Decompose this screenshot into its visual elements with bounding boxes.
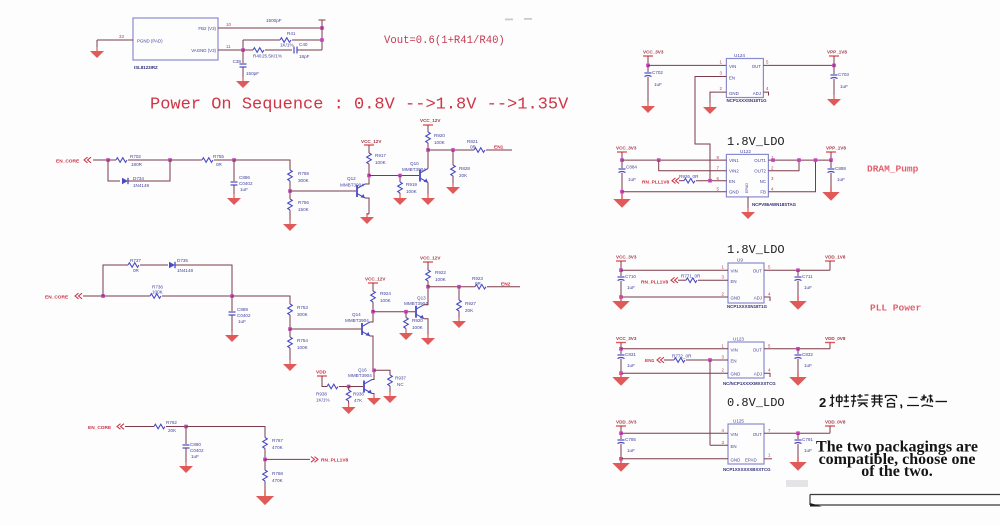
regulator U40 body (133, 18, 218, 60)
svg-text:C710: C710 (625, 274, 636, 279)
wire U124 GND (710, 92, 726, 104)
svg-text:NCP1XXXSN18T1G: NCP1XXXSN18T1G (727, 98, 768, 103)
wire R755 to C886 node (214, 159, 234, 161)
wire C38 bottom (242, 67, 244, 77)
wire R919 bottom (399, 193, 401, 195)
resistor R759 (288, 170, 293, 181)
net connector EN_CORE (75, 293, 82, 299)
svg-text:MMBT3904: MMBT3904 (345, 318, 369, 323)
wire diode branch right (128, 160, 170, 181)
power VCC_3V3 (643, 56, 653, 60)
wire emitter jog (367, 213, 369, 215)
wire C886 bottom (233, 185, 235, 194)
wire C889 bottom (231, 315, 233, 331)
ground (612, 458, 630, 472)
svg-text:VCC_3V3: VCC_3V3 (616, 336, 637, 341)
wire C886 top (233, 160, 235, 181)
svg-text:EN: EN (729, 179, 735, 184)
ground (367, 394, 381, 405)
ground (399, 329, 413, 340)
wire to R924 (372, 302, 374, 312)
svg-text:0R: 0R (470, 145, 477, 150)
resistor R768 (263, 470, 268, 481)
svg-text:R755: R755 (213, 154, 224, 159)
svg-text:C702: C702 (652, 70, 663, 75)
svg-text:VPP_1V8: VPP_1V8 (826, 146, 846, 151)
svg-text:100K: 100K (152, 290, 164, 295)
junction R936 node (347, 385, 351, 389)
svg-text:EN2: EN2 (501, 282, 511, 288)
power VPP_1V8 (829, 56, 839, 60)
svg-text:R756: R756 (298, 200, 309, 205)
wire Q13 collector (424, 287, 428, 305)
capacitor C831 (618, 355, 625, 359)
wire R41 to VAGND (242, 40, 244, 50)
capacitor C886 (231, 182, 238, 185)
ground (393, 194, 407, 205)
junction C711 node (796, 268, 800, 272)
wire upper branch right (175, 265, 232, 296)
resistor R919 (398, 182, 403, 193)
svg-text:RN_PLL1V8: RN_PLL1V8 (641, 280, 669, 286)
svg-text:VIN: VIN (729, 64, 736, 69)
wire OUT2 join (768, 160, 799, 171)
power VDD_1V8 (825, 261, 835, 265)
svg-text:1N4148: 1N4148 (177, 268, 194, 273)
wire VIN (621, 432, 728, 434)
ground (612, 372, 630, 386)
resistor R917 (367, 153, 372, 164)
svg-text:OUT: OUT (752, 64, 762, 69)
wire Q12 collector (365, 176, 369, 185)
resistor R920 (426, 132, 431, 143)
wire C832 bottom (797, 359, 799, 373)
svg-text:C884: C884 (626, 165, 637, 170)
svg-text:R702: R702 (130, 154, 141, 159)
svg-text:Q16: Q16 (358, 368, 367, 373)
svg-text:PLL Power: PLL Power (870, 303, 922, 314)
wire VDD down (829, 426, 831, 433)
junction VIN node (619, 268, 623, 272)
svg-text:470K: 470K (272, 478, 284, 483)
svg-text:MMBT3904: MMBT3904 (404, 301, 428, 306)
junction C890 node (184, 425, 188, 429)
svg-text:VDD_0V8: VDD_0V8 (825, 336, 846, 341)
svg-text:1uF: 1uF (804, 285, 812, 290)
wire ADJ stub (764, 373, 770, 377)
junction Q16 collector node (372, 369, 376, 373)
svg-text:47K: 47K (354, 398, 363, 403)
wire R737 to D735 (140, 264, 168, 266)
junction FB node (814, 158, 818, 162)
wire C703 top (833, 65, 835, 74)
svg-text:18pF: 18pF (299, 54, 310, 59)
svg-text:C38: C38 (233, 59, 242, 64)
wire to RN_PLL1V8 (265, 458, 310, 460)
wire R754 bottom (289, 348, 291, 360)
svg-text:1uF: 1uF (654, 82, 662, 87)
junction R828 node (451, 148, 455, 152)
resistor R767 (263, 438, 268, 449)
wire base Q12 (290, 190, 356, 192)
svg-text:D735: D735 (177, 258, 188, 263)
svg-text:VCC_3V3: VCC_3V3 (616, 255, 637, 260)
capacitor C888 (828, 169, 835, 173)
svg-text:R920: R920 (412, 318, 423, 323)
resistor R762 (154, 424, 165, 429)
wire FB2 net (218, 27, 322, 29)
svg-text:1uF: 1uF (240, 187, 248, 192)
svg-text:R920: R920 (434, 133, 445, 138)
junction C886 node (232, 158, 236, 162)
wire to EN2 label (487, 286, 520, 288)
wire C791 bottom (797, 444, 799, 458)
wire GND row (621, 372, 728, 374)
wire VPP down (833, 56, 835, 65)
wire R759 to node (289, 181, 291, 191)
junction divider node (263, 458, 267, 462)
svg-text:ISL8123IRZ: ISL8123IRZ (134, 65, 158, 70)
junction VPP node (829, 158, 833, 162)
wire Q14 collector (370, 312, 373, 322)
wire U124 EN to U122 EN (695, 77, 726, 181)
wire upper branch left (103, 265, 128, 296)
svg-text:1.8V_LDO: 1.8V_LDO (727, 243, 785, 257)
wire EN_CORE input (83, 295, 103, 297)
resistor R772 (674, 358, 685, 363)
junction GND node (619, 371, 623, 375)
svg-text:VDD_3V3: VDD_3V3 (616, 420, 637, 425)
wire C711 bottom (797, 281, 799, 297)
junction OUT2 node (797, 158, 801, 162)
svg-text:OUT1: OUT1 (754, 158, 766, 163)
junction C832 node (796, 347, 800, 351)
svg-text:NCPV86AWN18STAG: NCPV86AWN18STAG (752, 202, 797, 207)
diode D735 (169, 262, 175, 268)
wire VDD down (620, 426, 622, 439)
wire C884 bottom (621, 173, 623, 196)
ground (225, 331, 239, 342)
wire to R917 (368, 164, 370, 176)
wire VDD to R938 (322, 376, 327, 387)
wire to R759 (234, 160, 290, 170)
wire FB join (768, 160, 815, 192)
svg-text:1uF: 1uF (191, 454, 199, 459)
resistor R920 (404, 318, 409, 329)
wire R922 bottom (427, 281, 429, 287)
ground (612, 296, 630, 310)
svg-text:R821: R821 (467, 139, 478, 144)
svg-text:GND: GND (729, 190, 739, 195)
svg-text:25.5K/1%: 25.5K/1% (262, 54, 282, 59)
svg-text:VAGND (V3): VAGND (V3) (191, 48, 216, 53)
junction Q13 collector node (426, 285, 430, 289)
svg-text:1K/1%: 1K/1% (316, 398, 330, 403)
ground (421, 194, 435, 205)
resistor R754 (288, 337, 293, 348)
svg-text:R917: R917 (375, 153, 386, 158)
net connector EN_CORE (117, 424, 124, 430)
ground (641, 102, 655, 113)
ground (283, 220, 297, 231)
resistor R755 (202, 158, 213, 163)
wire R768 bottom (264, 481, 266, 492)
svg-text:FB: FB (760, 190, 766, 195)
annotation chinese text 2种封装兼容，二选一 (819, 394, 947, 410)
svg-text:C0402: C0402 (190, 448, 204, 453)
svg-text:FB2 (V3): FB2 (V3) (198, 26, 216, 31)
power VCC_3V3 (616, 343, 626, 347)
svg-text:1uF: 1uF (627, 363, 635, 368)
power VDD_3V3 (616, 426, 626, 430)
wire ADJ stub (764, 297, 770, 301)
wire Q14 to Q13 base (373, 311, 415, 313)
wire to R768 (264, 459, 266, 470)
wire to R922 (427, 282, 429, 287)
capacitor C40 (294, 47, 297, 54)
wire VIN (621, 269, 728, 271)
stray mark (505, 19, 513, 21)
svg-text:R926_0R: R926_0R (679, 174, 699, 179)
wire R828 bottom (452, 176, 454, 184)
svg-text:100K: 100K (412, 325, 424, 330)
ground (789, 372, 807, 386)
junction VIN node (619, 431, 623, 435)
wire EPAD stub (764, 458, 772, 460)
net connector RN_PLL1V8 (311, 457, 318, 463)
wire ADJ stub (763, 92, 768, 95)
wire ground stem (96, 40, 98, 47)
junction GND node (620, 190, 624, 194)
svg-text:MMBT3904: MMBT3904 (402, 167, 426, 172)
svg-text:DRAM_Pump: DRAM_Pump (867, 164, 919, 175)
ground (789, 296, 807, 310)
svg-text:D734: D734 (133, 176, 144, 181)
svg-text:100K: 100K (406, 189, 418, 194)
svg-text:100K: 100K (434, 140, 446, 145)
svg-text:EN_CORE: EN_CORE (56, 159, 80, 165)
ground (227, 194, 241, 205)
svg-text:0R: 0R (133, 268, 140, 273)
wire R917 top (368, 147, 370, 153)
wire to R754 (289, 329, 291, 337)
svg-text:1500pF: 1500pF (266, 18, 282, 23)
wire to U124 VIN (648, 64, 726, 66)
junction EN node (708, 179, 712, 183)
svg-text:NC: NC (760, 179, 766, 184)
svg-text:1uF: 1uF (628, 177, 636, 182)
wire EN_CORE input (93, 159, 108, 161)
ground (827, 95, 841, 106)
wire C888 top (830, 160, 832, 168)
svg-text:R937: R937 (395, 376, 406, 381)
svg-text:C703: C703 (838, 72, 849, 77)
wire EN1 down to U125 (709, 360, 711, 445)
svg-text:100K: 100K (435, 277, 447, 282)
power VCC_12V (423, 262, 433, 266)
wire R41 left (243, 39, 280, 41)
svg-text:1uF: 1uF (804, 363, 812, 368)
wire OUT1 (768, 159, 831, 161)
svg-text:of the two.: of the two. (861, 463, 933, 480)
wire R762 right (166, 426, 186, 428)
svg-text:U9: U9 (737, 258, 743, 263)
smudge mark (786, 480, 808, 487)
resistor R41 (280, 38, 291, 43)
wire VIN1 (622, 159, 726, 161)
svg-text:C711: C711 (802, 274, 813, 279)
svg-text:ADJ: ADJ (754, 296, 762, 301)
svg-text:OUT2: OUT2 (754, 169, 766, 174)
svg-text:1uF: 1uF (837, 177, 845, 182)
resistor R736 (150, 294, 161, 299)
wire R917 bottom (368, 164, 370, 176)
wire EN (710, 444, 728, 446)
wire R924 top (372, 285, 374, 291)
junction R759/R756 (288, 189, 292, 193)
svg-text:R924: R924 (380, 291, 391, 296)
wire OUT (764, 269, 830, 271)
svg-text:R768: R768 (272, 471, 283, 476)
wire top tick (319, 19, 326, 21)
svg-text:EPAD: EPAD (745, 458, 757, 463)
resistor R756 (288, 199, 293, 210)
wire R919 top (399, 176, 401, 183)
wire to R767 (186, 427, 265, 438)
svg-text:1K/1%: 1K/1% (280, 43, 294, 48)
wire C702 bottom (647, 77, 649, 102)
capacitor C832 (795, 355, 802, 359)
title block frame (810, 495, 1000, 506)
net connector RN_PLL1V8 (671, 277, 678, 283)
wire C832 top (797, 349, 799, 354)
wire VDD down (829, 343, 831, 349)
wire R938 right (339, 386, 349, 388)
wire to Q16 base (349, 386, 363, 388)
svg-text:R40: R40 (253, 54, 262, 59)
ground (256, 491, 274, 505)
svg-text:NCP1XXXSN18T1G: NCP1XXXSN18T1G (727, 304, 768, 309)
wire C40 right (297, 49, 322, 51)
resistor R821 (474, 148, 485, 153)
wire OUT (764, 432, 830, 434)
svg-text:R767: R767 (272, 438, 283, 443)
svg-text:U123: U123 (733, 337, 744, 342)
svg-text:180R: 180R (131, 162, 143, 167)
wire to R755 (170, 159, 202, 161)
wire Q13 emitter (424, 319, 428, 334)
svg-text:1.8V_LDO: 1.8V_LDO (727, 135, 785, 149)
capacitor C785 (618, 440, 625, 444)
junction R927 node (457, 285, 461, 289)
wire R920 top (427, 127, 429, 132)
ground (236, 77, 250, 88)
svg-text:R922: R922 (435, 270, 446, 275)
wire VCC down (620, 261, 622, 276)
junction C791 node (796, 431, 800, 435)
svg-text:NC: NC (397, 382, 404, 387)
wire EN left (679, 180, 684, 182)
junction VIN node (646, 64, 650, 68)
frame corner blob (810, 503, 822, 507)
wire C711 top (797, 270, 799, 276)
svg-text:C831: C831 (625, 352, 636, 357)
wire C889 top (231, 296, 233, 311)
capacitor C890 (183, 445, 190, 448)
wire EN left (664, 359, 674, 361)
power VCC_3V3 (617, 152, 627, 156)
ground (703, 103, 717, 114)
ground (360, 213, 374, 224)
svg-text:VDD_1V8: VDD_1V8 (825, 255, 846, 260)
wire right vertical (321, 20, 323, 50)
svg-text:20K: 20K (168, 428, 177, 433)
wire U124 OUT (763, 64, 834, 66)
resistor R927 (457, 300, 462, 311)
wire EN left (678, 279, 686, 281)
wire C702 top (647, 65, 649, 72)
wire R40 left (243, 49, 253, 51)
net connector EN_CORE (84, 157, 91, 163)
resistor R771 (686, 278, 697, 283)
svg-text:1uF: 1uF (238, 319, 246, 324)
wire R927 top (458, 287, 460, 300)
stray mark (524, 18, 532, 20)
wire R927 bottom (458, 311, 460, 318)
svg-text:R936: R936 (353, 392, 364, 397)
wire GND row (622, 191, 726, 193)
wire EN1 out (428, 149, 474, 151)
svg-text:C832: C832 (802, 352, 813, 357)
resistor R923 (475, 284, 486, 289)
ground (421, 334, 435, 345)
wire VCC down (647, 56, 649, 65)
ground (179, 462, 193, 473)
wire C791 top (797, 433, 799, 439)
LDO U124 body (726, 59, 763, 98)
svg-text:GND: GND (731, 296, 741, 301)
svg-text:GND: GND (731, 372, 741, 377)
wire VIN2 (659, 160, 727, 171)
wire PGND to ground (97, 39, 133, 41)
wire to EN1 label (486, 149, 512, 151)
wire Q14 emitter down (370, 336, 373, 370)
wire EN2 out (428, 286, 475, 288)
resistor R937 (388, 375, 393, 386)
wire to R736 (103, 295, 150, 297)
junction VAGND node (241, 48, 245, 52)
svg-text:R762: R762 (166, 420, 177, 425)
LDO U122 body (726, 154, 768, 197)
wire Q10 collector (427, 150, 429, 169)
LDO U123 body (728, 342, 764, 378)
svg-text:GND: GND (731, 458, 741, 463)
svg-text:Q13: Q13 (417, 296, 426, 301)
wire R920 bottom (427, 143, 429, 150)
svg-text:R919: R919 (406, 182, 417, 187)
svg-text:VCC_3V3: VCC_3V3 (643, 50, 664, 55)
ground (446, 183, 460, 194)
net connector RN_PLL1V8 (672, 178, 679, 184)
wire VPP down (830, 152, 832, 160)
wire R41 right (292, 39, 322, 41)
svg-text:U124: U124 (734, 53, 745, 58)
junction Q14 collector node (371, 310, 375, 314)
capacitor C884 (619, 169, 626, 173)
power VPP_1V8 (826, 152, 836, 156)
svg-text:VCC_12V: VCC_12V (420, 118, 441, 123)
svg-text:R772_0R: R772_0R (672, 354, 692, 359)
